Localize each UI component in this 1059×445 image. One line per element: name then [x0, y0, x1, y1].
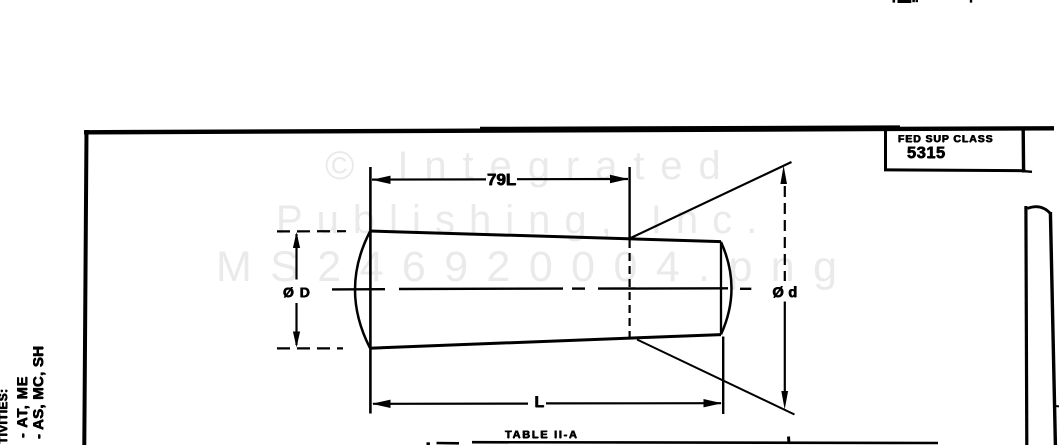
label OD: [283, 284, 311, 300]
pin crowned left end arc: [355, 232, 370, 349]
frame left border: [84, 130, 86, 445]
right column left vertical line: [1024, 206, 1028, 445]
vertical text TIVITIES:: [0, 389, 9, 444]
vertical text - AS, MC, SH: [32, 346, 46, 439]
table top rule: [472, 441, 938, 444]
Od bottom arrowhead: [781, 391, 788, 410]
L right arrowhead: [704, 399, 723, 407]
pin bottom edge: [370, 335, 721, 349]
label FED SUP CLASS: [898, 133, 994, 145]
Od dimension line lower: [784, 302, 786, 404]
79L left arrowhead: [372, 176, 391, 184]
OD bottom extension dashes: [277, 347, 343, 349]
tick on table rule: [787, 437, 790, 444]
label TABLE II-A: [505, 429, 579, 441]
79L right arrowhead: [610, 175, 629, 183]
L dimension line: [373, 403, 528, 405]
OD top arrowhead: [293, 232, 300, 248]
frame top border: [84, 128, 1054, 132]
cut-off text remnants at top edge: [893, 0, 973, 3]
Od bottom slanted projection line: [637, 340, 795, 415]
FED SUP CLASS box bottom edge: [884, 168, 1026, 172]
label L: [535, 394, 545, 412]
pin right end chord: [720, 242, 722, 335]
Od top slanted projection line: [630, 162, 792, 239]
right column right vertical line: [1050, 212, 1055, 445]
Od top arrowhead: [780, 166, 787, 185]
OD top extension dashes: [277, 230, 346, 232]
table rule leading dash: [437, 442, 460, 445]
pin top edge: [370, 231, 721, 242]
right column curved top hook: [1028, 207, 1051, 214]
OD bottom arrowhead: [293, 332, 300, 348]
L right extension line: [722, 337, 724, 415]
frame top border scan doubling: [480, 127, 900, 128]
watermark line 2: [276, 198, 771, 243]
OD dimension line upper: [295, 234, 297, 280]
pin crowned right end arc: [721, 242, 732, 334]
FED box bottom-right overshoot tick: [1024, 170, 1032, 173]
vertical text - AT, ME: [16, 376, 30, 438]
FED SUP CLASS box left edge: [884, 130, 887, 170]
OD dimension line lower: [295, 303, 297, 345]
79L dimension line: [372, 178, 486, 180]
label 5315: [907, 144, 946, 163]
Od dimension line upper (dashed): [784, 186, 786, 281]
79L left extension line: [369, 167, 372, 414]
79L right extension line (dashed through pin): [628, 240, 630, 339]
label 79L: [487, 170, 516, 190]
watermark line 3: [216, 243, 855, 292]
FED SUP CLASS box right edge: [1022, 130, 1026, 173]
centerline (dash-dot): [332, 288, 751, 289]
label Od: [773, 285, 798, 301]
small tick on right edge: [1055, 405, 1059, 407]
L left arrowhead: [372, 400, 391, 408]
79L right extension line (solid above pin): [628, 167, 630, 240]
table rule leading dot: [427, 442, 430, 445]
watermark line 1: [325, 144, 737, 189]
